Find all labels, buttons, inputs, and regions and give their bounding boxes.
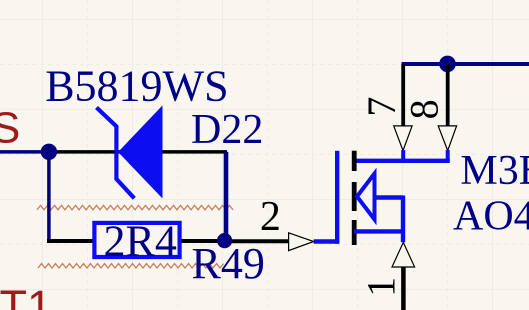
wire: net S horizontal from left edge to node [0, 150, 50, 154]
mosfet body diode arrow [357, 174, 375, 220]
mosfet gate lead [314, 239, 339, 243]
pin 7 arrow [394, 126, 412, 151]
svg-text:AO44: AO44 [453, 194, 529, 240]
wire: main horizontal black to diode net [48, 150, 227, 154]
wire: pin 7 vertical black [401, 64, 405, 126]
mosfet drain lead [354, 159, 450, 163]
svg-text:B5819WS: B5819WS [45, 62, 228, 111]
svg-text:M3BP: M3BP [460, 148, 529, 194]
svg-text:S: S [0, 104, 20, 153]
pin 1 arrow [392, 242, 415, 267]
junction node at R49 [217, 233, 232, 248]
pin 8 arrow [438, 126, 456, 151]
error squiggle lower [38, 264, 224, 268]
svg-text:2: 2 [260, 194, 281, 240]
wire: pin 1 vertical black to bottom edge [401, 267, 406, 310]
svg-text:T1: T1 [0, 281, 52, 310]
mosfet source lead [354, 229, 403, 233]
svg-text:7: 7 [359, 97, 404, 117]
wire: node to pin-2 arrow [225, 239, 289, 243]
junction node top [439, 56, 456, 73]
mosfet channel bottom segment [352, 220, 357, 245]
svg-text:2R4: 2R4 [104, 217, 177, 266]
mosfet body line [375, 195, 404, 199]
pin 8 stub [446, 150, 450, 161]
wire: left vertical drop [47, 152, 51, 243]
mosfet channel middle segment [352, 182, 357, 211]
wire: right vertical from diode cathode net down to node [224, 152, 229, 243]
pin 2 arrow [289, 233, 314, 251]
diode D22 triangle [119, 107, 162, 198]
wire: bottom row left black segment to resistor [47, 239, 93, 243]
error squiggle upper [37, 205, 233, 209]
mosfet gate bar [335, 151, 339, 244]
wire: resistor right stub to node [181, 239, 226, 243]
mosfet channel top segment [352, 151, 357, 171]
resistor R49 body [94, 223, 179, 257]
mosfet source vertical [401, 196, 405, 243]
svg-text:8: 8 [402, 99, 447, 119]
svg-text:D22: D22 [191, 107, 263, 153]
wire: top net horizontal navy [402, 62, 529, 66]
svg-text:R49: R49 [192, 239, 265, 288]
diode D22 schottky cathode bar [97, 108, 135, 199]
svg-text:1: 1 [358, 277, 403, 297]
wire: pin 8 vertical black [446, 64, 450, 126]
junction node left [41, 144, 57, 160]
pin 7 stub [401, 150, 405, 161]
